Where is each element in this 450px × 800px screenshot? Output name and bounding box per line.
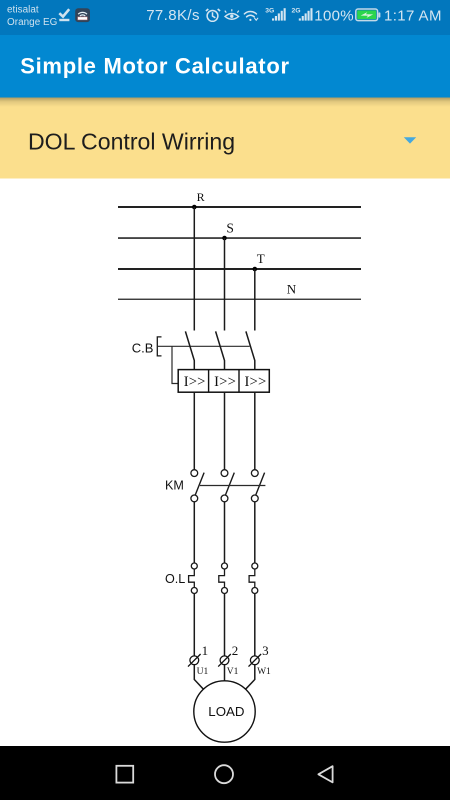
node S tap [222,236,227,241]
terminal number 3 [262,643,269,658]
status icon: 3G signal bars [272,8,286,20]
terminal number 2 [232,643,239,658]
motor LOAD circle [194,681,255,742]
svg-text:N: N [287,282,297,297]
wire pole3 contactor to overload [254,502,256,563]
status icon: alarm clock [206,9,220,21]
status text: 2G label [292,8,301,15]
wire L3 drop from T bus [254,269,256,331]
svg-text:DOL Control Wirring: DOL Control Wirring [28,128,235,154]
breaker pole 1 blade [185,331,194,369]
overload O.L label [165,572,185,586]
overload pole 3 heater element [249,569,255,588]
svg-text:2G: 2G [292,8,301,15]
app bar title [20,54,290,79]
overload pole 3 lower terminal [252,588,258,594]
wire pole3 breaker to contactor [254,392,256,470]
wire V1 to motor [224,665,226,681]
overload pole 1 heater element [189,569,195,588]
bus N line [118,299,361,300]
status text: 3G label [265,8,274,15]
trip unit I>> label 3 [245,374,267,390]
svg-text:100%: 100% [314,7,354,24]
wire pole2 contactor to overload [224,502,226,563]
wire L1 drop from R bus [193,207,195,331]
wire C.B trip link [172,346,178,383]
node T tap [253,267,258,272]
contactor pole 1 lower contact [191,495,198,502]
svg-text:77.8K/s: 77.8K/s [146,7,200,24]
svg-text:T: T [257,251,265,266]
wire L2 drop from S bus [224,238,226,331]
bus T label [257,251,265,266]
status icon: 2G signal bars [299,8,313,20]
wire pole1 contactor to overload [193,502,195,563]
svg-text:1:17 AM: 1:17 AM [384,8,442,25]
terminal tag W1 [257,667,271,677]
svg-text:I>>: I>> [214,374,236,390]
status icon: checkmark [59,9,69,20]
overload pole 2 upper terminal [222,563,228,569]
breaker C.B linkage bar [157,345,249,347]
wire pole1 overload to terminal [193,594,195,656]
nav icon: recents square [116,766,133,783]
contactor pole 2 upper contact [221,470,228,477]
bus S line [118,237,361,239]
status icon: wifi [244,11,257,21]
status text: clock [384,8,442,25]
status text: carrier names [7,5,57,28]
contactor pole 3 lower contact [251,495,258,502]
svg-text:I>>: I>> [245,374,267,390]
svg-text:O.L: O.L [165,572,185,586]
spinner yellow background [0,98,450,179]
bus R line [118,206,361,208]
motor terminal 1 circle [188,654,201,667]
svg-text:LOAD: LOAD [208,704,244,719]
trip unit I>> label 1 [184,374,206,390]
svg-text:C.B: C.B [132,340,154,355]
wire pole2 breaker to contactor [224,392,226,470]
svg-text:Orange EG: Orange EG [7,17,57,28]
contactor pole 2 blade [226,473,235,495]
wire pole1 breaker to contactor [193,392,195,470]
overload pole 2 heater element [219,569,225,588]
nav bar background [0,746,450,800]
spinner dropdown arrow [404,137,416,143]
svg-text:3G: 3G [265,8,274,15]
svg-text:Simple Motor Calculator: Simple Motor Calculator [20,54,290,79]
nav icon: home circle [215,765,233,783]
overload pole 2 lower terminal [222,588,228,594]
terminal tag U1 [197,667,209,677]
motor LOAD label [208,704,244,719]
wire U1 to motor [194,665,203,690]
bus R label [197,190,205,204]
contactor KM linkage bar [200,485,266,487]
status text: battery percent [314,7,354,24]
terminal number 1 [202,643,209,658]
status icon: eye [225,9,239,19]
overload pole 1 upper terminal [191,563,197,569]
node R tap [192,205,197,210]
wire W1 to motor [246,665,255,690]
status icon: battery [356,9,381,21]
terminal tag V1 [227,667,239,677]
trip unit I>> label 2 [214,374,236,390]
overload pole 1 lower terminal [191,588,197,594]
svg-text:U1: U1 [197,667,209,677]
breaker pole 2 blade [216,331,225,369]
breaker pole 3 blade [246,331,255,369]
status text: net speed [146,7,200,24]
svg-text:1: 1 [202,643,209,658]
bus S label [226,220,234,235]
svg-text:V1: V1 [227,667,239,677]
status bar background [0,0,450,35]
bus T line [118,268,361,270]
breaker C.B bracket [157,337,161,356]
svg-text:R: R [197,190,205,204]
app bar background [0,35,450,98]
contactor pole 3 upper contact [251,470,258,477]
status icon: hotspot box [75,8,90,22]
spinner label [28,128,235,154]
contactor pole 2 lower contact [221,495,228,502]
contactor pole 3 blade [256,473,265,495]
overcurrent trip box row [178,370,269,393]
svg-text:3: 3 [262,643,269,658]
bus N label [287,282,297,297]
wire pole3 overload to terminal [254,594,256,656]
contactor KM label [165,479,184,493]
svg-text:S: S [226,220,234,235]
nav icon: back triangle [318,766,332,782]
svg-text:etisalat: etisalat [7,5,39,16]
motor terminal 2 circle [218,654,231,667]
svg-text:I>>: I>> [184,374,206,390]
overload pole 3 upper terminal [252,563,258,569]
breaker C.B label [132,340,154,355]
contactor pole 1 blade [195,473,204,495]
svg-text:W1: W1 [257,667,271,677]
wire pole2 overload to terminal [224,594,226,656]
svg-text:KM: KM [165,479,184,493]
contactor pole 1 upper contact [191,470,198,477]
svg-text:2: 2 [232,643,239,658]
motor terminal 3 circle [249,654,262,667]
